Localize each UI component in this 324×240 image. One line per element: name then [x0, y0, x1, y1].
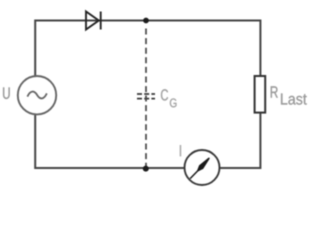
capacitor CG (dashed plates) — [137, 94, 155, 99]
label RLast — [271, 86, 307, 104]
diode D1 — [86, 12, 101, 30]
label I — [180, 145, 182, 156]
ammeter I — [185, 150, 220, 185]
node: bottom junction — [143, 166, 149, 172]
label U — [3, 87, 10, 99]
wire: dashed link from top junction to capacitor — [145, 26, 147, 95]
wire top-left: left vertical + top horizontal to diode — [35, 21, 260, 77]
wire: dashed link from capacitor to bottom junction — [145, 96, 147, 167]
wire: source bottom to bottom-left corner to meter left — [35, 115, 184, 168]
wire: resistor bottom to bottom-right corner to meter right — [220, 113, 261, 169]
resistor RLast — [255, 76, 266, 113]
label CG — [161, 89, 176, 107]
node: top junction — [143, 18, 149, 24]
AC source U — [18, 76, 56, 114]
